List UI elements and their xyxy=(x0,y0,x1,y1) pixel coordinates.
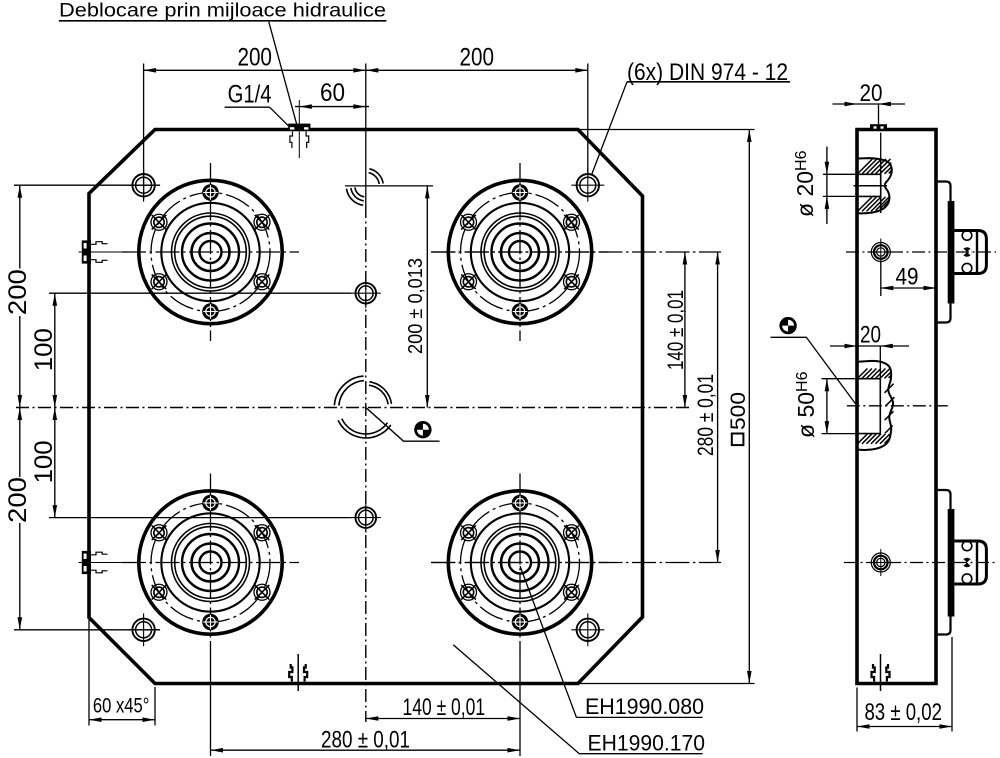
svg-text:500: 500 xyxy=(726,392,750,430)
flange row centerline extensions xyxy=(431,251,721,253)
svg-text:200: 200 xyxy=(460,44,495,72)
svg-text:60: 60 xyxy=(320,79,345,107)
side bolt hole upper xyxy=(867,239,894,266)
svg-text:G1/4: G1/4 xyxy=(228,81,272,109)
svg-text:83 ± 0,02: 83 ± 0,02 xyxy=(864,699,942,726)
svg-text:280 ± 0,01: 280 ± 0,01 xyxy=(693,374,718,456)
mid hole upper on vertical centerline xyxy=(351,278,381,308)
corner hole bottom-right xyxy=(571,613,604,646)
svg-text:20: 20 xyxy=(860,322,881,349)
svg-text:140 ± 0,01: 140 ± 0,01 xyxy=(403,694,486,721)
svg-text:20: 20 xyxy=(860,80,883,107)
flange unit A2 top-right xyxy=(432,163,609,341)
side view flange boss step upper xyxy=(936,182,951,323)
dimension 83 +- 0,02 xyxy=(856,688,858,732)
dimension square 500 overall xyxy=(580,129,755,131)
svg-text:100: 100 xyxy=(30,440,58,483)
dimension 140 +- 0,01 bottom xyxy=(366,718,520,720)
hatching lower socket xyxy=(858,369,868,379)
label EH1990.170 with leader xyxy=(453,645,702,754)
dimension 20 side top xyxy=(833,103,906,105)
svg-text:200 ± 0,013: 200 ± 0,013 xyxy=(404,258,427,354)
dimension 20 side lower xyxy=(830,345,909,347)
left dimension 200 lower xyxy=(14,629,160,631)
datum target symbol front xyxy=(414,421,431,438)
dimension 200 +- 0,013 vertical at center xyxy=(345,185,433,187)
dimension 60 x45 chamfer xyxy=(88,620,90,726)
leader from title note to G1/4 port xyxy=(269,22,297,126)
svg-text:49: 49 xyxy=(896,263,919,290)
datum target symbol side with leader xyxy=(771,337,858,406)
G1/4 port on top edge xyxy=(288,106,310,159)
upper socket o20 H6 cross-section xyxy=(880,133,882,162)
corner hole top-right xyxy=(571,169,604,202)
hatching upper socket xyxy=(858,159,873,174)
corner hole top-left (o20 H6) xyxy=(127,169,160,202)
G1/4 port mark on side top edge xyxy=(870,124,887,129)
svg-text:EH1990.080: EH1990.080 xyxy=(585,694,704,719)
corner hole bottom-left xyxy=(127,613,160,646)
dimension 140 +- 0,01 right vertical xyxy=(684,252,686,408)
svg-text:140 ± 0,01: 140 ± 0,01 xyxy=(663,290,688,370)
dimension 280 +- 0,01 bottom xyxy=(211,749,521,751)
dimension 200 top-left xyxy=(144,69,588,71)
vent symbol bottom edge xyxy=(289,654,307,691)
vent symbol side bottom edge xyxy=(872,654,890,691)
squareness reference arcs at plate center xyxy=(339,381,364,406)
side centerline o50 socket xyxy=(847,405,950,407)
lower socket o50 H6 cross-section xyxy=(858,361,894,450)
dimension 49 xyxy=(880,262,882,296)
flange unit A1 top-left EH1990.080 xyxy=(122,163,299,341)
svg-text:100: 100 xyxy=(30,328,58,371)
hydraulic port left edge lower xyxy=(79,551,115,574)
left dimension 100 lower xyxy=(49,517,351,519)
left dimension 200 upper xyxy=(14,184,160,186)
svg-text:200: 200 xyxy=(4,477,32,523)
label EH1990.080 with leader to flange xyxy=(520,566,703,717)
main horizontal centerline xyxy=(16,407,689,409)
clamp block lower right xyxy=(954,541,986,584)
flange unit A4 bottom-right xyxy=(432,474,609,652)
svg-text:EH1990.170: EH1990.170 xyxy=(588,730,706,755)
flange unit A3 bottom-left xyxy=(122,474,299,652)
side bolt hole lower xyxy=(867,549,894,576)
side view body outline (83 thick plate) xyxy=(857,130,936,684)
dimension 200 top-right xyxy=(366,68,379,73)
dimension o20 H6 xyxy=(823,173,856,175)
svg-text:60 x45°: 60 x45° xyxy=(93,695,149,718)
svg-text:Deblocare prin mijloace hidrau: Deblocare prin mijloace hidraulice xyxy=(59,1,386,22)
datum leader from plate center xyxy=(366,408,440,442)
side centerline lower flange row xyxy=(844,562,996,564)
flange A3 vertical extension to bottom dims xyxy=(210,651,212,756)
svg-text:280 ± 0,01: 280 ± 0,01 xyxy=(321,726,410,753)
dimension o50 H6 xyxy=(822,378,856,380)
dimension 280 +- 0,01 right vertical xyxy=(717,252,719,563)
flange A4 vertical extension to bottom dims xyxy=(519,651,521,756)
hydraulic port left edge upper xyxy=(79,240,115,263)
clamp block upper right xyxy=(954,231,986,274)
svg-text:200: 200 xyxy=(4,269,32,315)
svg-text:200: 200 xyxy=(237,44,272,72)
dimension 60 at top xyxy=(295,106,369,108)
left dimension 100 upper xyxy=(49,292,351,294)
squareness reference arcs at top node xyxy=(369,173,380,184)
front view: plate EH1990.170 outline (square 500 with 60x45 chamfers) xyxy=(89,130,643,684)
main vertical centerline xyxy=(365,64,367,206)
mid hole lower on vertical centerline xyxy=(351,503,381,533)
side view flange boss step lower xyxy=(936,490,951,635)
side centerline upper flange row xyxy=(846,251,996,253)
